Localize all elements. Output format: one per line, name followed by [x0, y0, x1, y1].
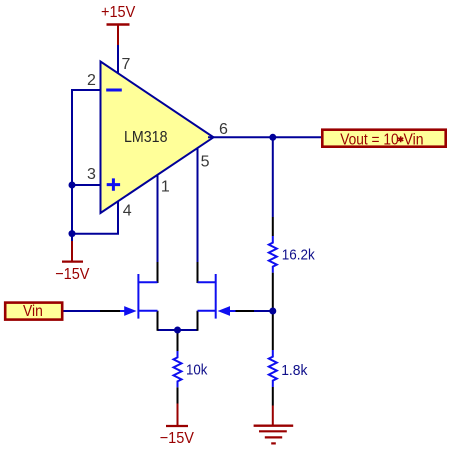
svg-text:1.8k: 1.8k — [281, 362, 308, 379]
svg-text:Vin: Vin — [404, 131, 424, 148]
svg-text:+15V: +15V — [101, 4, 136, 21]
svg-text:1: 1 — [161, 178, 170, 195]
svg-text:3: 3 — [87, 166, 96, 183]
svg-text:5: 5 — [201, 153, 210, 170]
svg-text:16.2k: 16.2k — [282, 247, 315, 264]
svg-text:LM318: LM318 — [124, 129, 168, 146]
svg-text:−15V: −15V — [55, 266, 90, 283]
svg-text:2: 2 — [87, 72, 96, 89]
svg-text:−15V: −15V — [160, 430, 195, 447]
svg-text:Vin: Vin — [23, 303, 43, 320]
svg-text:Vout = 10: Vout = 10 — [340, 131, 398, 148]
svg-text:6: 6 — [219, 121, 228, 138]
svg-text:4: 4 — [123, 203, 132, 220]
svg-text:10k: 10k — [186, 362, 208, 379]
svg-text:7: 7 — [122, 56, 131, 73]
